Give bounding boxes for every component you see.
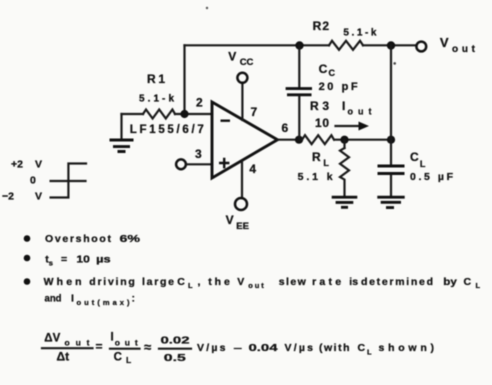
svg-text:L: L <box>420 159 426 169</box>
svg-text:When: When <box>44 276 82 288</box>
svg-text:V/µs: V/µs <box>197 342 226 354</box>
svg-text:R1: R1 <box>147 72 165 86</box>
speck noise <box>206 7 208 9</box>
svg-text:by: by <box>443 276 457 288</box>
svg-text:3: 3 <box>195 147 202 161</box>
svg-text:ΔV: ΔV <box>44 333 60 345</box>
svg-text:R2: R2 <box>313 19 330 33</box>
svg-text:V: V <box>237 276 244 288</box>
svg-text:≈: ≈ <box>144 340 151 355</box>
terminal Vout <box>416 42 426 52</box>
svg-text:s: s <box>49 259 53 268</box>
svg-text:I: I <box>111 332 114 344</box>
bullet 1 <box>24 235 31 242</box>
node pin2 junction <box>180 110 188 118</box>
svg-text:+2: +2 <box>11 159 23 171</box>
svg-text:CC: CC <box>240 57 254 68</box>
svg-text:L: L <box>367 348 372 357</box>
svg-text:V: V <box>440 35 449 50</box>
svg-text:Δt: Δt <box>57 350 70 364</box>
VCC supply <box>228 50 253 121</box>
minus input mark <box>221 119 231 121</box>
resistor R2 <box>329 41 363 50</box>
svg-text:−2: −2 <box>2 191 14 203</box>
svg-text:20 pF: 20 pF <box>319 81 358 93</box>
plus input mark <box>219 158 229 169</box>
svg-text:6: 6 <box>282 121 289 135</box>
svg-text:Overshoot: Overshoot <box>45 233 112 245</box>
capacitor CC <box>286 45 358 139</box>
svg-text:C: C <box>358 342 366 354</box>
equation fraction dVout/dt <box>42 333 93 364</box>
svg-text:driving: driving <box>89 276 135 288</box>
svg-text:EE: EE <box>236 221 249 232</box>
svg-text:0.5 µF: 0.5 µF <box>410 171 454 183</box>
svg-text:–: – <box>234 342 243 354</box>
svg-text:6%: 6% <box>120 233 141 245</box>
resistor RL <box>298 140 349 196</box>
equation fraction Iout/CL <box>110 332 140 366</box>
wire R1 left lead <box>122 113 144 115</box>
svg-text:V: V <box>35 191 42 203</box>
svg-text:5.1-k: 5.1-k <box>139 94 174 105</box>
svg-text:large: large <box>142 276 174 288</box>
svg-text:R3: R3 <box>310 99 329 113</box>
svg-text:L: L <box>323 158 329 168</box>
node RL junction <box>340 136 348 144</box>
svg-text:is: is <box>349 276 358 288</box>
capacitor CL <box>378 140 454 196</box>
svg-text:I: I <box>342 99 345 113</box>
svg-text:=: = <box>61 254 67 266</box>
svg-text:out: out <box>65 338 90 348</box>
svg-text:out: out <box>452 44 476 55</box>
svg-text:2: 2 <box>196 96 203 110</box>
svg-text:V: V <box>228 50 236 64</box>
svg-text:out(max): out(max) <box>77 298 131 307</box>
node feedback/CC junction <box>295 41 303 49</box>
svg-text:4: 4 <box>249 162 256 176</box>
bullet 2 <box>24 255 31 262</box>
svg-text:5.1 k: 5.1 k <box>298 171 333 183</box>
ground input <box>110 114 134 152</box>
arrow Iout <box>336 125 361 127</box>
svg-text:R: R <box>312 150 321 164</box>
svg-text:0.04: 0.04 <box>249 342 278 354</box>
svg-text:10: 10 <box>76 254 90 266</box>
bullet 3 <box>24 278 31 285</box>
wire Vout node down to CL node <box>390 45 392 139</box>
svg-text:7: 7 <box>251 105 258 119</box>
wire pin3 lead <box>187 163 213 165</box>
input step waveform <box>51 164 86 198</box>
svg-text:V/µs: V/µs <box>285 342 314 354</box>
svg-text:slew: slew <box>279 276 307 288</box>
svg-text:C: C <box>114 352 122 364</box>
svg-text::: : <box>132 293 136 305</box>
resistor R3 <box>302 135 334 144</box>
svg-text:,: , <box>198 276 201 288</box>
svg-text:µs: µs <box>96 254 111 266</box>
svg-text:0.5: 0.5 <box>164 352 186 364</box>
wire top feedback horizontal <box>185 44 330 46</box>
svg-text:10: 10 <box>315 116 329 130</box>
svg-text:I: I <box>71 293 74 305</box>
wire R2 to Vout terminal <box>363 44 415 46</box>
svg-text:=: = <box>96 340 103 354</box>
ground CL <box>377 197 404 207</box>
svg-text:out: out <box>115 338 138 348</box>
svg-text:LF155/6/7: LF155/6/7 <box>130 124 204 136</box>
node CL junction <box>387 136 395 144</box>
svg-text:rate: rate <box>312 276 341 288</box>
svg-text:determined: determined <box>361 276 433 288</box>
wire R1 to pin2 <box>175 113 212 115</box>
VEE supply <box>226 161 249 232</box>
svg-text:C: C <box>329 68 336 78</box>
resistor R1 <box>143 110 175 119</box>
op-amp U1 LF155/6/7 triangle <box>212 102 278 178</box>
node R2/CL junction <box>387 41 395 49</box>
svg-text:L: L <box>126 355 131 365</box>
wire R3 to CL node <box>335 139 392 141</box>
svg-text:L: L <box>476 281 481 290</box>
svg-text:0.02: 0.02 <box>161 335 190 347</box>
wire op-amp output to R3 <box>278 139 303 141</box>
svg-text:the: the <box>208 276 230 288</box>
svg-text:V: V <box>35 159 42 171</box>
node output/CC junction <box>295 136 303 144</box>
svg-text:0: 0 <box>30 175 36 187</box>
svg-text:out: out <box>248 281 264 290</box>
equation fraction 0.02/0.5 <box>159 335 191 365</box>
terminal pin3 input <box>176 159 186 169</box>
svg-text:and: and <box>45 293 62 305</box>
wire pin2 vertical drop <box>183 45 185 114</box>
svg-text:(with: (with <box>319 342 350 354</box>
svg-text:C: C <box>177 276 185 288</box>
svg-text:V: V <box>226 213 234 227</box>
svg-text:C: C <box>319 62 328 76</box>
svg-text:out: out <box>348 107 372 117</box>
ground RL <box>332 197 358 207</box>
svg-text:C: C <box>464 276 472 288</box>
svg-text:C: C <box>410 150 419 164</box>
svg-text:shown): shown) <box>379 342 435 354</box>
svg-text:L: L <box>188 281 193 290</box>
svg-text:5.1-k: 5.1-k <box>343 28 376 39</box>
